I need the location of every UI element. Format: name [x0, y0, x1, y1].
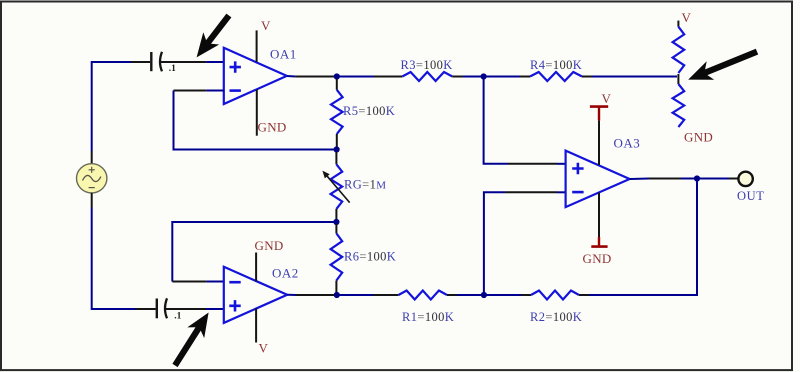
svg-text:OA3: OA3 [614, 136, 641, 151]
svg-text:.1: .1 [174, 311, 181, 321]
wire R3 to node B [452, 76, 463, 78]
wire node B to R4 [486, 76, 520, 78]
wire node F up to OA3 - input [484, 192, 505, 292]
svg-text:R6=100K: R6=100K [344, 250, 396, 264]
AC source VS [77, 151, 107, 208]
potentiometer bottom half resistor (tap to GND) [673, 84, 713, 145]
svg-text:R2=100K: R2=100K [530, 310, 582, 324]
arrow pointing at potentiometer tap [688, 49, 758, 80]
node A junction dot [334, 73, 340, 79]
svg-text:V: V [602, 91, 612, 106]
resistor R1 [399, 291, 455, 325]
svg-text:GND: GND [255, 238, 284, 253]
wire R2 to output column [579, 294, 589, 296]
resistor R3 [401, 58, 453, 81]
op-amp OA3 [566, 136, 641, 208]
resistor R6 [331, 224, 397, 293]
potentiometer tap stub [677, 74, 679, 84]
wire OA3 output to node G [630, 178, 694, 181]
OA1 GND supply stub [257, 90, 287, 136]
wire bottom-left from source to capacitor C2 [92, 208, 156, 310]
OA1 V supply stub [257, 18, 271, 62]
wire R1 to node F [447, 294, 457, 296]
svg-text:R5=100K: R5=100K [343, 104, 395, 118]
arrow pointing at OA2 + input [172, 313, 208, 368]
node F junction dot [481, 292, 487, 298]
svg-text:GND: GND [258, 120, 287, 135]
wire top-left horizontal from source column to capacitor C1 [92, 62, 150, 151]
svg-text:OA1: OA1 [270, 47, 297, 62]
svg-text:GND: GND [684, 130, 713, 145]
OA2 V supply stub [256, 309, 268, 356]
wire R4 to potentiometer tap [582, 76, 677, 78]
svg-text:RG=1M: RG=1M [344, 178, 386, 192]
op-amp OA2 [224, 266, 299, 323]
svg-text:V: V [261, 18, 271, 33]
wire node E to R1 [339, 294, 373, 296]
wire OA2 feedback loop [172, 222, 334, 282]
variable resistor RG [322, 152, 386, 220]
svg-text:V: V [259, 341, 269, 356]
arrow pointing at OA1 + input [197, 14, 232, 58]
resistor R2 [530, 291, 582, 325]
node D junction dot (RG/R6/feedback OA2) [333, 219, 339, 225]
wire node A to R3 [339, 76, 374, 78]
resistor R5 [331, 79, 395, 147]
svg-text:OUT: OUT [737, 189, 765, 203]
svg-text:OA2: OA2 [272, 266, 299, 281]
OUT terminal [737, 172, 765, 203]
capacitor C2 value .1 [157, 298, 182, 321]
node C junction dot (R5/RG/feedback OA1) [334, 146, 340, 152]
svg-text:GND: GND [583, 251, 612, 266]
svg-text:.1: .1 [169, 64, 176, 74]
wire OA1 output to node A [287, 75, 334, 78]
wire OA2 output to node E [287, 294, 334, 296]
op-amp OA1 [224, 47, 297, 105]
capacitor C1 value .1 [151, 52, 176, 74]
wire capacitor C1 to OA1 + input [161, 61, 224, 63]
node E junction dot (OA2 output row) [334, 292, 340, 298]
wire capacitor C2 to OA2 + input [166, 308, 224, 310]
OA3 GND supply with bar [583, 193, 612, 267]
svg-text:R3=100K: R3=100K [401, 58, 453, 72]
svg-text:R1=100K: R1=100K [402, 310, 454, 324]
OA2 GND supply stub [255, 238, 284, 281]
node G junction dot [694, 175, 700, 181]
resistor R4 [530, 58, 582, 81]
wire OA1 feedback loop [174, 91, 335, 150]
wire node F to R2 [487, 294, 522, 296]
OA3 V supply with bar [590, 91, 612, 165]
wire node B down to OA3 + input [484, 79, 508, 164]
svg-text:R4=100K: R4=100K [530, 58, 582, 72]
svg-text:V: V [682, 10, 692, 25]
node B junction dot [481, 73, 487, 79]
wire node G to OUT terminal [700, 178, 738, 180]
potentiometer top half resistor (V to tap) [673, 10, 692, 73]
